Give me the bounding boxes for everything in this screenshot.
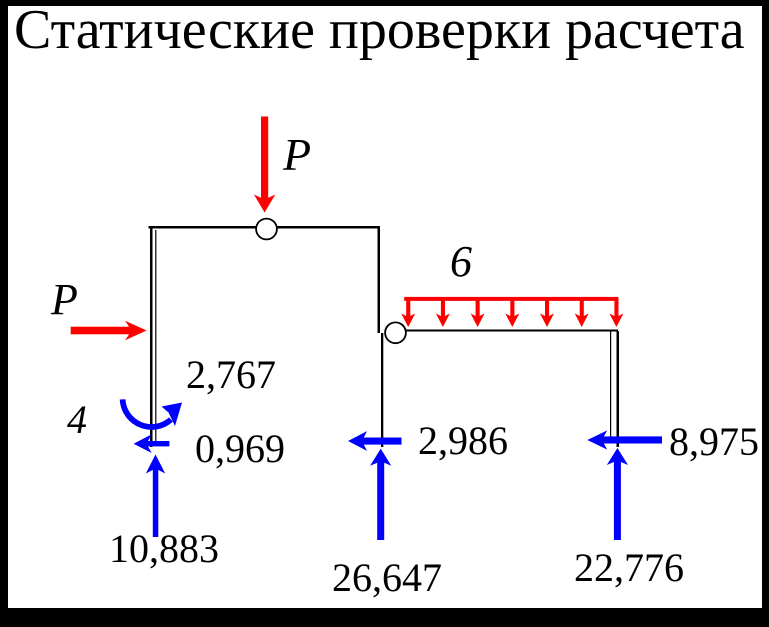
wire: right column (617, 331, 620, 447)
value 2,986 (418, 417, 508, 464)
blue up arrow reaction 22,776 (607, 448, 628, 540)
label P top (283, 128, 311, 181)
label 4 (67, 396, 87, 443)
value 0,969 (195, 425, 285, 472)
blue up arrow reaction 10,883 (146, 455, 165, 538)
wire: right column inner line (610, 331, 611, 443)
value 8,975 (669, 418, 759, 465)
wire: cantilever beam (395, 330, 618, 332)
value 22,776 (574, 544, 684, 591)
label 6 over load (450, 236, 472, 287)
value 26,647 (332, 554, 442, 601)
value 2,767 (186, 351, 276, 398)
force P left red right arrow (71, 321, 147, 341)
wire: left column (150, 226, 153, 447)
blue up arrow reaction 26,647 (370, 449, 391, 540)
force P top red down arrow (254, 117, 275, 213)
wire: right upper column (378, 226, 381, 333)
moment arc blue left support (123, 399, 182, 427)
label P left (51, 274, 78, 325)
border frame (0, 0, 769, 6)
title (14, 0, 769, 62)
hinge circle top (256, 219, 277, 240)
blue left arrow 2,986 (348, 431, 402, 451)
hinge circle right (385, 322, 406, 343)
wire: mid column (381, 333, 383, 447)
wire: left column companion line (155, 230, 156, 443)
blue left arrow 8,975 (587, 430, 662, 449)
blue left arrow 0,969 (134, 434, 170, 453)
distributed load q red (401, 297, 623, 327)
wire: top beam (149, 226, 379, 229)
value 10,883 (109, 525, 219, 572)
